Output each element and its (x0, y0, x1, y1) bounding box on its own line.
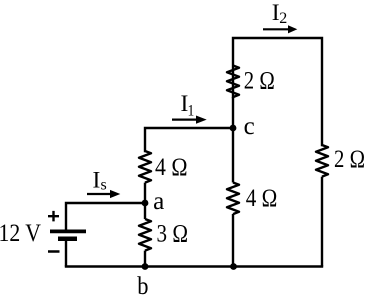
resistor 4ohm left (139, 151, 151, 183)
svg-text:3 Ω: 3 Ω (157, 221, 189, 248)
svg-text:2 Ω: 2 Ω (244, 68, 275, 95)
svg-text:2 Ω: 2 Ω (334, 146, 365, 173)
arrow shaft Is (87, 193, 111, 195)
node b junction dot (142, 263, 149, 270)
arrowhead Is (110, 190, 120, 198)
wire Is from battery to node a (66, 203, 145, 231)
resistor 4ohm middle (227, 183, 239, 215)
svg-text:4 Ω: 4 Ω (155, 154, 188, 181)
svg-text:2: 2 (279, 10, 287, 27)
battery minus sign (48, 250, 60, 253)
arrow shaft I2 (263, 28, 289, 30)
wire middle branch between resistors through node c (232, 97, 234, 183)
svg-text:b: b (137, 273, 148, 300)
svg-text:1: 1 (188, 102, 195, 119)
wire battery negative to bottom rail (65, 239, 67, 267)
battery plus sign (48, 211, 59, 222)
svg-text:a: a (153, 188, 164, 215)
svg-text:c: c (244, 113, 255, 140)
wire middle branch bottom (232, 214, 234, 267)
node a junction dot (142, 200, 149, 207)
battery V1 negative plate (58, 236, 77, 241)
svg-text:12 V: 12 V (0, 220, 41, 247)
arrow shaft I1 (172, 118, 197, 120)
svg-text:I: I (93, 168, 101, 194)
junction dot middle branch at bottom rail (230, 263, 237, 270)
battery V1 positive plate (50, 229, 86, 233)
node c junction dot (230, 125, 237, 132)
resistor 2ohm top middle (227, 66, 239, 98)
resistor 3ohm (139, 219, 151, 251)
wire top of I2 loop (233, 38, 322, 145)
svg-text:4 Ω: 4 Ω (246, 185, 277, 212)
wire left-middle branch through node a (144, 183, 146, 219)
wire I1 top of middle loop (145, 128, 233, 151)
resistor 2ohm right (316, 145, 328, 177)
svg-text:s: s (101, 177, 107, 194)
arrowhead I2 (288, 25, 297, 33)
wire bottom rail (66, 265, 322, 267)
wire left-middle branch bottom (144, 251, 146, 267)
wire right branch bottom (321, 177, 323, 267)
arrowhead I1 (196, 116, 207, 124)
